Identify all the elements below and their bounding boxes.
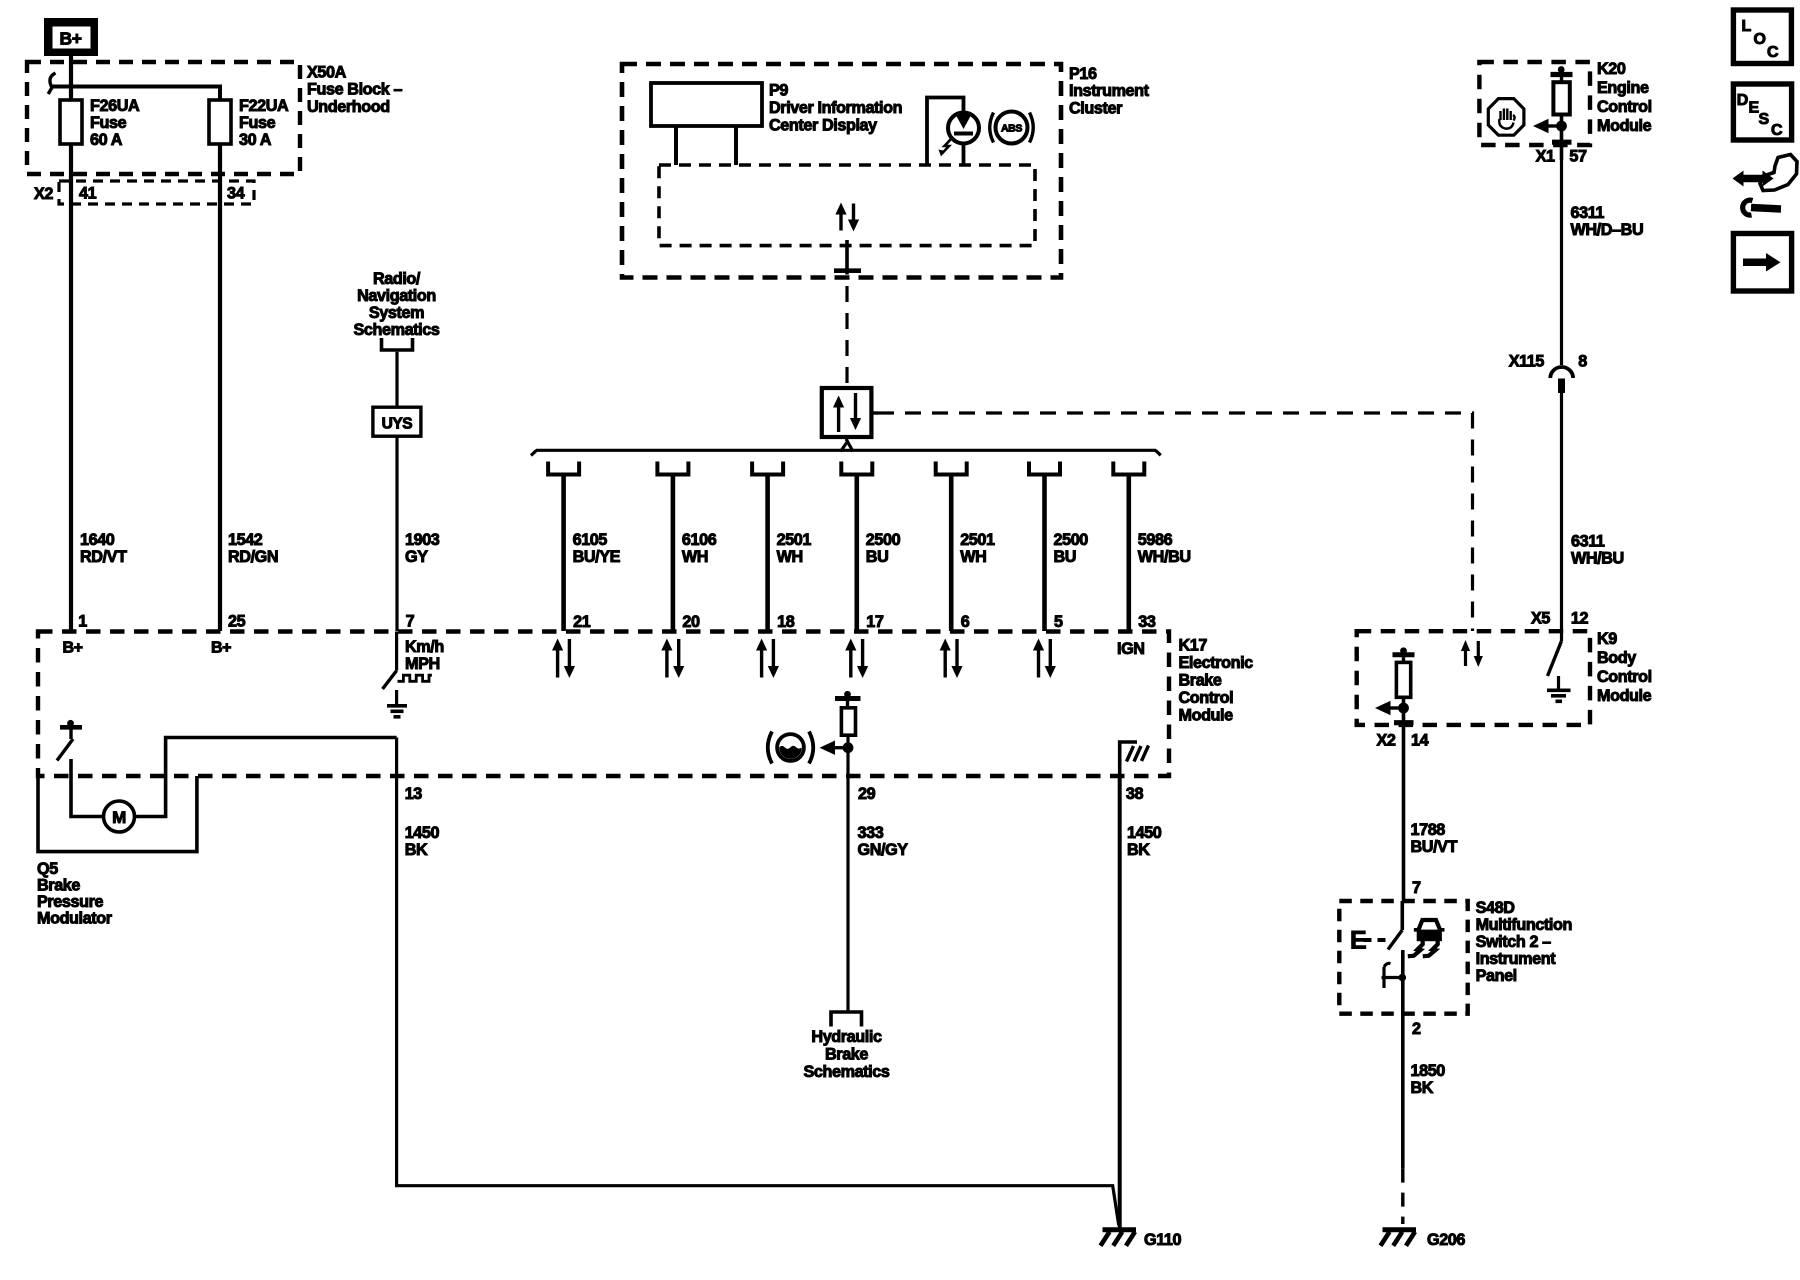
K17 internal switch to Q5 — [57, 720, 82, 761]
wire 5986 WH/BU branch to K17 pin 33 — [1127, 475, 1132, 632]
bus branch connector 2 — [657, 462, 688, 475]
svg-text:X1: X1 — [1536, 148, 1555, 166]
label wire 2501 WH — [777, 531, 812, 566]
K20 internal resistor — [1551, 66, 1573, 114]
svg-text:1903: 1903 — [405, 531, 440, 549]
K9 internal resistor output — [1393, 647, 1415, 697]
svg-text:BU: BU — [1054, 548, 1077, 566]
svg-text:17: 17 — [866, 613, 884, 631]
label IGN at K17 pin 33 — [1117, 640, 1145, 658]
S48D internal contact symbol — [1382, 963, 1407, 988]
svg-text:WH/BU: WH/BU — [1138, 548, 1191, 566]
bus branch connector 6 — [1029, 462, 1060, 475]
svg-text:GY: GY — [405, 548, 428, 566]
svg-text:P16: P16 — [1069, 65, 1097, 83]
svg-text:C: C — [1771, 122, 1783, 139]
wire K20 resistor to pin X1-57 — [1552, 115, 1572, 161]
svg-text:Cluster: Cluster — [1069, 99, 1123, 117]
svg-text:29: 29 — [858, 785, 876, 803]
K17 up/down arrows pin 18 — [756, 639, 779, 679]
signal arrow K9 output — [1375, 701, 1404, 715]
label P9 Driver Information Center Display — [769, 82, 902, 135]
svg-text:2500: 2500 — [1054, 531, 1089, 549]
svg-text:Engine: Engine — [1597, 79, 1649, 97]
junction dot K20 — [1556, 121, 1567, 132]
svg-text:Fuse: Fuse — [90, 114, 127, 132]
module K9 Body Control Module dashed outline — [1357, 631, 1590, 725]
bus branch connector 5 — [936, 462, 967, 475]
K17 internal ground pin 38 — [1120, 742, 1149, 776]
junction dot K9 — [1398, 703, 1409, 714]
svg-text:Driver Information: Driver Information — [769, 99, 902, 117]
pin 17 — [866, 613, 884, 631]
instrument cluster P16 dashed outline — [622, 64, 1061, 278]
svg-text:Multifunction: Multifunction — [1476, 916, 1572, 934]
pin 20 — [682, 613, 700, 631]
svg-text:25: 25 — [228, 613, 246, 631]
svg-text:B+: B+ — [63, 640, 83, 657]
svg-text:6311: 6311 — [1571, 204, 1605, 222]
label connector X2 — [34, 185, 53, 203]
up/down data arrows in cluster — [835, 203, 859, 232]
svg-text:WH/BU: WH/BU — [1571, 550, 1624, 568]
svg-text:Body: Body — [1597, 649, 1636, 667]
svg-text:Brake: Brake — [1179, 672, 1222, 690]
svg-text:BU/VT: BU/VT — [1411, 838, 1458, 856]
K17 up/down arrows pin 6 — [940, 639, 963, 679]
svg-text:S48D: S48D — [1476, 899, 1516, 917]
svg-text:Pressure: Pressure — [37, 893, 103, 911]
svg-text:Module: Module — [1597, 117, 1652, 135]
module K17 Electronic Brake Control Module dashed outline — [38, 632, 1169, 777]
wire 2501 WH branch to K17 pin 6 — [949, 475, 954, 632]
label K17 Electronic Brake Control Module — [1179, 637, 1254, 725]
serial data bus line — [531, 450, 1161, 455]
svg-text:C: C — [1767, 44, 1779, 61]
svg-text:Underhood: Underhood — [307, 98, 390, 116]
dashed link E to switch — [1364, 938, 1386, 942]
svg-text:Module: Module — [1179, 707, 1234, 725]
svg-text:6311: 6311 — [1571, 533, 1605, 551]
svg-text:2: 2 — [1412, 1020, 1421, 1038]
label S48D Multifunction Switch 2 - Instrument Panel — [1476, 899, 1572, 985]
svg-text:B+: B+ — [59, 29, 81, 49]
svg-text:2500: 2500 — [866, 531, 901, 549]
svg-text:1788: 1788 — [1411, 821, 1446, 839]
ABS telltale indicator lamp — [927, 98, 979, 166]
label wire 1850 BK — [1411, 1062, 1446, 1097]
svg-text:WH: WH — [777, 548, 803, 566]
svg-text:57: 57 — [1569, 148, 1587, 166]
svg-text:GN/GY: GN/GY — [858, 841, 909, 859]
pin 57 — [1569, 148, 1587, 166]
node E momentary label — [1350, 927, 1366, 955]
label G206 — [1427, 1231, 1465, 1249]
label K20 Engine Control Module — [1597, 60, 1652, 135]
svg-text:5986: 5986 — [1138, 531, 1173, 549]
svg-text:X2: X2 — [1377, 732, 1396, 750]
svg-text:Radio/: Radio/ — [373, 270, 421, 288]
pin 13 — [405, 785, 423, 803]
svg-text:X5: X5 — [1531, 610, 1550, 628]
svg-text:Instrument: Instrument — [1069, 82, 1150, 100]
svg-text:D: D — [1737, 92, 1748, 109]
svg-text:Fuse Block –: Fuse Block – — [307, 81, 402, 99]
pin 38 — [1126, 785, 1144, 803]
wire K9 resistor to pin X2-14 — [1394, 697, 1414, 755]
fuse F26UA 60A — [60, 100, 82, 144]
label wire 2500 BU — [866, 531, 901, 566]
module K20 Engine Control Module dashed outline — [1479, 62, 1590, 145]
svg-text:G110: G110 — [1144, 1231, 1182, 1249]
label wire 1542 RD/GN — [228, 531, 278, 566]
in-line connector X115 pin 8 — [1550, 367, 1573, 393]
svg-text:Brake: Brake — [825, 1046, 868, 1064]
svg-text:1850: 1850 — [1411, 1062, 1446, 1080]
svg-text:F26UA: F26UA — [90, 97, 140, 115]
pin 6 — [961, 613, 970, 631]
svg-text:X2: X2 — [34, 185, 53, 203]
label wire 333 GN/GY — [858, 824, 909, 859]
pin 41 — [79, 185, 97, 203]
svg-text:Navigation: Navigation — [357, 287, 436, 305]
connector X1 — [1536, 148, 1555, 166]
svg-text:Control: Control — [1179, 689, 1234, 707]
svg-text:X115: X115 — [1509, 353, 1545, 371]
bus branch connector 1 — [548, 462, 579, 475]
wire B+ to fuse F26UA — [69, 56, 73, 100]
svg-text:K20: K20 — [1597, 60, 1626, 78]
svg-text:2501: 2501 — [777, 531, 812, 549]
wire radio to UYS — [395, 352, 398, 407]
label Km/h MPH — [405, 638, 444, 673]
svg-text:Center Display: Center Display — [769, 117, 877, 135]
brake warning indicator icon — [768, 732, 814, 764]
label wire 6106 WH — [682, 531, 717, 566]
wire switch to Q5 motor — [71, 759, 104, 817]
svg-text:333: 333 — [858, 824, 884, 842]
svg-text:BU: BU — [866, 548, 889, 566]
off-page connector to hydraulic brake schematics — [831, 1012, 862, 1027]
K9 internal switch to ground — [1547, 631, 1571, 701]
svg-text:Modulator: Modulator — [37, 910, 113, 928]
switch S48D dashed outline — [1339, 901, 1467, 1014]
svg-text:X50A: X50A — [307, 64, 347, 82]
svg-text:BK: BK — [1127, 841, 1150, 859]
wire 1450 BK pin 38 to ground G110 — [1118, 776, 1122, 1228]
K9 up/down data arrows — [1461, 640, 1483, 667]
serial data gateway box with up/down arrows — [822, 388, 872, 437]
svg-text:6105: 6105 — [573, 531, 608, 549]
svg-text:WH: WH — [960, 548, 986, 566]
traction control car skid icon — [1408, 920, 1445, 956]
pin 8 — [1578, 353, 1587, 371]
label G110 — [1144, 1231, 1182, 1249]
svg-text:12: 12 — [1571, 610, 1589, 628]
pin 14 — [1411, 732, 1429, 750]
legend arrow box — [1733, 234, 1791, 292]
svg-text:RD/VT: RD/VT — [80, 548, 127, 566]
label wire 1903 GY — [405, 531, 440, 566]
fuse F22UA 30A — [209, 100, 231, 144]
ABS warning symbol (ABS) — [990, 112, 1034, 144]
dashed serial data wire cluster to gateway — [845, 286, 848, 388]
label K9 Body Control Module — [1597, 630, 1652, 705]
connector X2 pin box of fuse block — [59, 181, 254, 204]
svg-text:IGN: IGN — [1117, 640, 1145, 658]
display P9 Driver Information Center — [651, 83, 762, 165]
pin 21 — [573, 613, 591, 631]
svg-text:7: 7 — [406, 613, 415, 631]
fusible link hook symbol — [48, 73, 55, 94]
motor M of Q5 brake pressure modulator — [104, 801, 135, 832]
svg-text:5: 5 — [1054, 613, 1063, 631]
svg-text:Schematics: Schematics — [804, 1063, 890, 1081]
wire 6311 WH/D-BU K20 to X115 — [1560, 160, 1563, 365]
bus branch connector 7 — [1113, 462, 1144, 475]
label wire 2500 BU — [1054, 531, 1089, 566]
K17 internal speed signal switch Km/h MPH — [383, 632, 397, 690]
wire 1850 BK S48D to ground G206 — [1401, 1014, 1405, 1224]
svg-text:MPH: MPH — [405, 655, 440, 673]
svg-text:L: L — [1742, 18, 1752, 35]
label wire 6105 BU/YE — [573, 531, 621, 566]
svg-text:Hydraulic: Hydraulic — [811, 1028, 882, 1046]
wire 1903 GY UYS to K17 pin 7 — [395, 436, 398, 631]
wire 1542 RD/GN fuse F22UA to K17 pin 25 — [218, 144, 222, 631]
legend LOC box — [1733, 10, 1791, 64]
svg-text:ABS: ABS — [1001, 123, 1022, 135]
svg-text:Control: Control — [1597, 98, 1652, 116]
pin 33 — [1138, 613, 1156, 631]
label P16 Instrument Cluster — [1069, 65, 1150, 117]
svg-text:Switch 2 –: Switch 2 – — [1476, 933, 1552, 951]
pin 2 of S48D — [1412, 1020, 1421, 1038]
svg-text:Module: Module — [1597, 687, 1652, 705]
fuse block X50A dashed outline — [27, 62, 300, 174]
off-page connector from radio/navigation — [382, 338, 413, 350]
pin 34 — [227, 185, 245, 203]
label Hydraulic Brake Schematics — [804, 1028, 890, 1081]
svg-text:20: 20 — [682, 613, 700, 631]
pin 1 — [78, 613, 87, 631]
ground G206 — [1381, 1230, 1417, 1246]
pin 25 — [228, 613, 246, 631]
label wire 2501 WH — [960, 531, 995, 566]
legend hand-wrench service icon — [1733, 155, 1798, 216]
label wire 1450 BK (pin 38) — [1127, 824, 1162, 859]
wire 6106 WH branch to K17 pin 20 — [671, 475, 676, 632]
wire 333 GN/GY pin 29 to hydraulic brake schematics — [846, 735, 849, 1011]
svg-text:1: 1 — [78, 613, 87, 631]
svg-text:Electronic: Electronic — [1179, 654, 1254, 672]
label wire 6311 WH/D-BU — [1571, 204, 1644, 239]
svg-text:BK: BK — [1411, 1079, 1434, 1097]
svg-text:1640: 1640 — [80, 531, 115, 549]
bus branch connector 3 — [752, 462, 783, 475]
wire 2500 BU branch to K17 pin 5 — [1042, 475, 1047, 632]
node B+ label pin 25 — [211, 640, 231, 657]
S48D wire through switch — [1401, 950, 1405, 1014]
pin 7 — [406, 613, 415, 631]
wire cluster serial stub — [834, 240, 861, 275]
dashed serial wire gateway to K9 body control module — [872, 413, 1473, 631]
svg-text:K17: K17 — [1179, 637, 1208, 655]
wire 6311 WH/BU X115 to K9 pin X5-12 — [1560, 393, 1563, 631]
svg-text:7: 7 — [1412, 879, 1421, 897]
K20 traction-off hand icon — [1488, 99, 1524, 136]
svg-text:Q5: Q5 — [37, 860, 58, 878]
svg-text:G206: G206 — [1427, 1231, 1465, 1249]
wire 6105 BU/YE branch to K17 pin 21 — [561, 475, 566, 632]
label wire 5986 WH/BU — [1138, 531, 1191, 566]
serial data inner dashed box in cluster — [659, 165, 1035, 246]
svg-text:Panel: Panel — [1476, 967, 1517, 985]
svg-text:RD/GN: RD/GN — [228, 548, 278, 566]
svg-text:O: O — [1754, 31, 1766, 48]
svg-text:1542: 1542 — [228, 531, 263, 549]
svg-text:K9: K9 — [1597, 630, 1617, 648]
wire 1450 BK pin 13 to ground G110 — [397, 738, 1119, 1226]
Q5 enclosure outline — [38, 776, 197, 852]
K17 internal ground for speed signal — [387, 690, 407, 717]
svg-text:38: 38 — [1126, 785, 1144, 803]
svg-text:B+: B+ — [211, 640, 231, 657]
svg-text:Schematics: Schematics — [354, 321, 440, 339]
wire motor return to K17 pin 13 riser — [135, 738, 397, 817]
svg-text:Brake: Brake — [37, 877, 80, 895]
svg-text:41: 41 — [79, 185, 97, 203]
K17 up/down arrows pin 5 — [1033, 639, 1056, 679]
label Q5 Brake Pressure Modulator — [37, 860, 113, 928]
svg-text:Fuse: Fuse — [239, 114, 276, 132]
label wire 1640 RD/VT — [80, 531, 127, 566]
svg-text:P9: P9 — [769, 82, 788, 100]
svg-text:Instrument: Instrument — [1476, 950, 1557, 968]
connector X2 of K9 — [1377, 732, 1396, 750]
svg-text:1450: 1450 — [405, 824, 440, 842]
svg-text:UYS: UYS — [382, 416, 413, 433]
K17 internal resistor pin 29 driver — [835, 691, 861, 735]
svg-text:M: M — [112, 808, 126, 827]
svg-text:Km/h: Km/h — [405, 638, 444, 656]
connector X5 — [1531, 610, 1550, 628]
node B+ battery feed box — [44, 18, 98, 56]
svg-text:S: S — [1759, 111, 1770, 128]
svg-text:6: 6 — [961, 613, 970, 631]
pin 18 — [777, 613, 795, 631]
label wire 1450 BK (pin 13) — [405, 824, 440, 859]
label wire 1788 BU/VT — [1411, 821, 1458, 856]
svg-text:F22UA: F22UA — [239, 97, 289, 115]
K17 up/down arrows pin 20 — [661, 639, 684, 679]
svg-text:Control: Control — [1597, 668, 1652, 686]
svg-text:WH: WH — [682, 548, 708, 566]
svg-text:34: 34 — [227, 185, 245, 203]
node B+ label pin 1 — [63, 640, 83, 657]
gateway to bus kink joint — [841, 437, 854, 452]
pin 5 — [1054, 613, 1063, 631]
wire feeder to fuse F22UA — [53, 87, 221, 101]
S48D switch contact — [1388, 901, 1402, 950]
svg-text:BK: BK — [405, 841, 428, 859]
pin 12 — [1571, 610, 1589, 628]
pin 7 of S48D — [1412, 879, 1421, 897]
signal arrow to hand icon — [1533, 119, 1562, 133]
svg-text:8: 8 — [1578, 353, 1587, 371]
label fuse F22UA — [239, 97, 289, 149]
svg-text:6106: 6106 — [682, 531, 717, 549]
signal arrow to brake warning icon — [820, 741, 849, 755]
svg-text:33: 33 — [1138, 613, 1156, 631]
label X50A Fuse Block - Underhood — [307, 64, 402, 116]
wire 1788 BU/VT K9 to S48D pin 7 — [1402, 755, 1406, 901]
pin 29 — [858, 785, 876, 803]
svg-text:13: 13 — [405, 785, 423, 803]
K17 up/down arrows pin 21 — [552, 639, 575, 679]
K17 up/down arrows pin 17 — [845, 639, 868, 679]
bus branch connector 4 — [841, 462, 872, 475]
svg-text:WH/D–BU: WH/D–BU — [1571, 221, 1644, 239]
svg-text:System: System — [369, 304, 424, 322]
label wire 6311 WH/BU — [1571, 533, 1624, 568]
label X115 — [1509, 353, 1545, 371]
wire 1640 RD/VT fuse F26UA to K17 pin 1 — [69, 144, 73, 631]
legend DESC box — [1733, 84, 1791, 140]
wire 2501 WH branch to K17 pin 18 — [765, 475, 770, 632]
svg-text:21: 21 — [573, 613, 591, 631]
svg-text:2501: 2501 — [960, 531, 995, 549]
junction dot pin 29 — [843, 742, 854, 753]
svg-text:60 A: 60 A — [90, 131, 123, 149]
svg-text:1450: 1450 — [1127, 824, 1162, 842]
label Radio/Navigation System Schematics — [354, 270, 440, 339]
svg-text:BU/YE: BU/YE — [573, 548, 621, 566]
PWM signal glyph — [398, 675, 432, 681]
ground G110 — [1101, 1230, 1137, 1246]
wire 2500 BU branch to K17 pin 17 — [854, 475, 859, 632]
svg-text:30 A: 30 A — [239, 131, 272, 149]
node UYS serial data box — [373, 407, 421, 436]
label fuse F26UA — [90, 97, 140, 149]
svg-text:14: 14 — [1411, 732, 1429, 750]
svg-text:18: 18 — [777, 613, 795, 631]
